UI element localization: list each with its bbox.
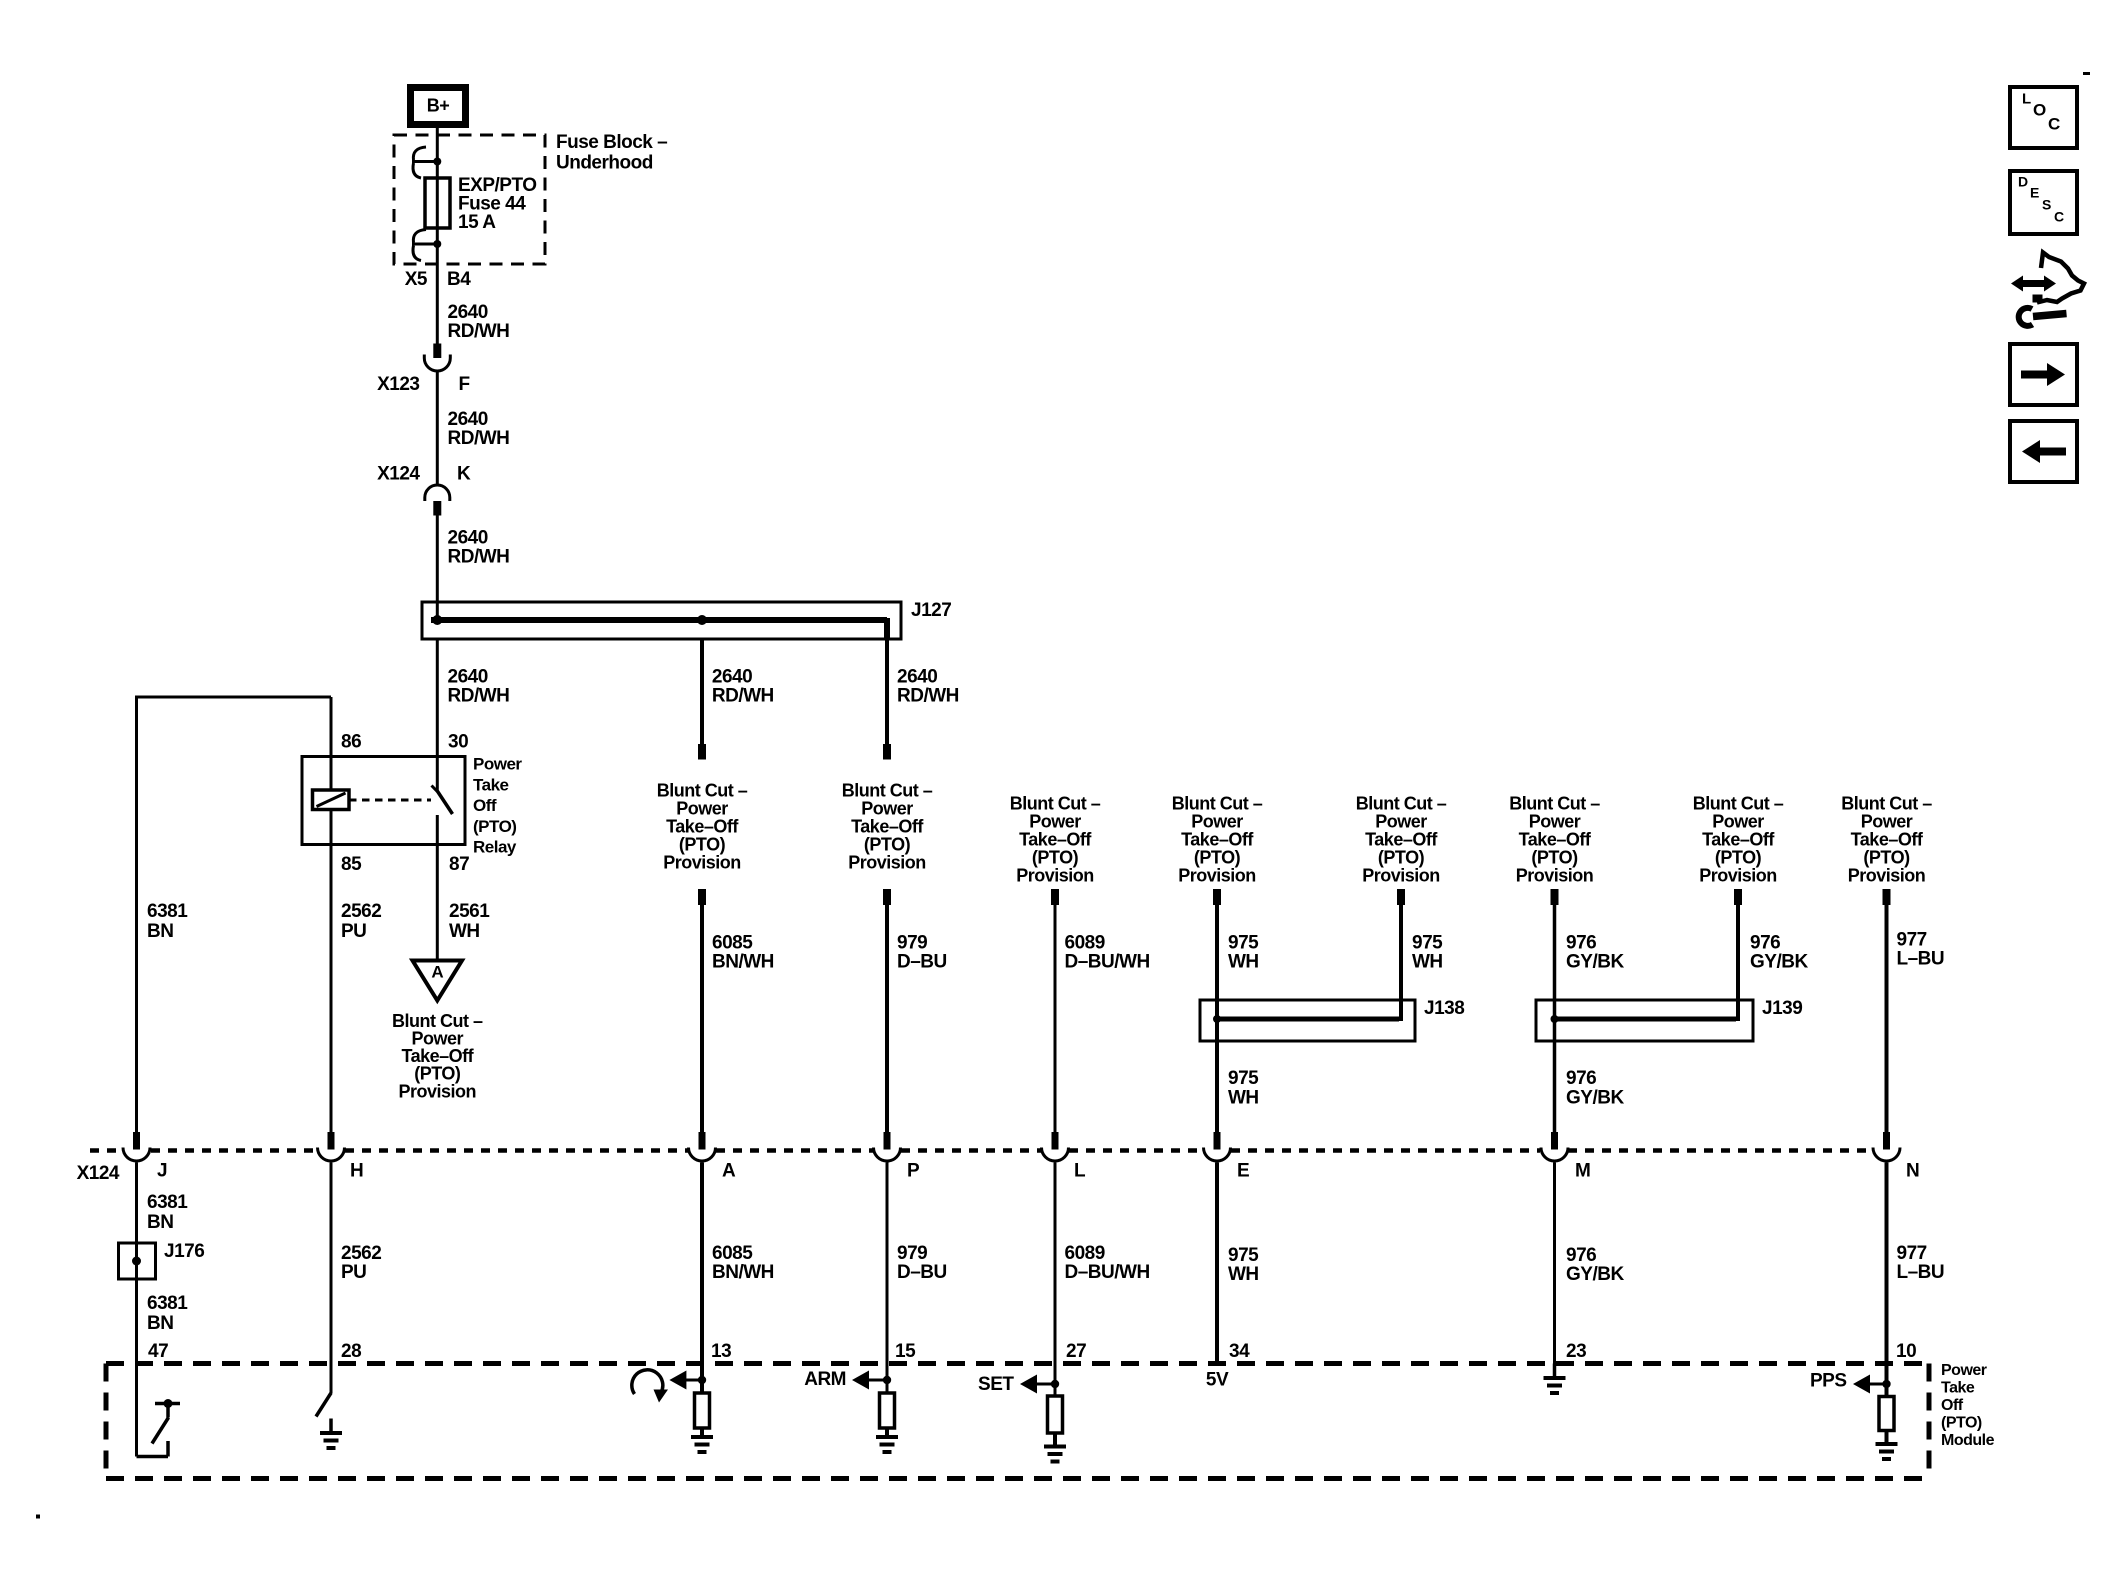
- svg-text:(PTO): (PTO): [679, 834, 726, 854]
- svg-text:6089: 6089: [1065, 933, 1105, 954]
- svg-text:Take: Take: [1941, 1380, 1975, 1397]
- svg-text:Provision: Provision: [1178, 865, 1256, 885]
- wire below connector E: [1215, 1163, 1219, 1364]
- svg-text:Provision: Provision: [399, 1081, 477, 1101]
- svg-text:(PTO): (PTO): [1531, 847, 1578, 867]
- svg-text:23: 23: [1566, 1341, 1586, 1362]
- junction node on J127 (A drop): [697, 615, 707, 625]
- svg-text:28: 28: [341, 1341, 361, 1362]
- svg-text:WH: WH: [1228, 1264, 1259, 1285]
- svg-text:6381: 6381: [147, 1192, 188, 1213]
- svg-text:L: L: [2022, 90, 2031, 107]
- svg-text:Provision: Provision: [1016, 865, 1094, 885]
- svg-text:BN: BN: [147, 1212, 173, 1233]
- rotate icon (pin 13): [632, 1370, 663, 1394]
- svg-text:2640: 2640: [897, 667, 937, 688]
- svg-text:Blunt Cut –: Blunt Cut –: [842, 780, 933, 800]
- svg-text:L–BU: L–BU: [1897, 1262, 1945, 1283]
- wire X123 to X124: [436, 371, 439, 486]
- wire relay pin86 branch: [135, 696, 331, 699]
- svg-text:Provision: Provision: [848, 852, 926, 872]
- svg-text:Power: Power: [1029, 811, 1081, 831]
- svg-text:Provision: Provision: [1362, 865, 1440, 885]
- wire relay 87 to blunt cut A triangle: [436, 844, 439, 959]
- svg-text:977: 977: [1897, 1243, 1927, 1264]
- svg-text:2640: 2640: [448, 302, 488, 323]
- connector X124 pin E: [1214, 1132, 1221, 1150]
- svg-text:B4: B4: [447, 269, 471, 290]
- svg-text:977: 977: [1897, 930, 1927, 951]
- svg-text:WH: WH: [449, 921, 480, 942]
- svg-text:GY/BK: GY/BK: [1566, 1264, 1624, 1285]
- svg-text:6381: 6381: [147, 1293, 188, 1314]
- svg-text:PU: PU: [341, 921, 366, 942]
- svg-text:WH: WH: [1228, 1088, 1259, 1109]
- wire col N blunt to connector: [1883, 889, 1891, 905]
- svg-text:30: 30: [448, 732, 468, 753]
- connector X124 pin N: [1883, 1132, 1890, 1150]
- svg-text:975: 975: [1228, 1245, 1259, 1266]
- svg-text:Relay: Relay: [473, 838, 517, 857]
- wire J127 to relay pin 30: [436, 639, 439, 791]
- svg-text:15 A: 15 A: [458, 212, 496, 233]
- svg-text:6085: 6085: [712, 1243, 753, 1264]
- svg-text:BN: BN: [147, 921, 173, 942]
- svg-text:S: S: [2042, 197, 2051, 213]
- svg-text:X124: X124: [77, 1163, 120, 1184]
- J139 bus: [1555, 1017, 1737, 1022]
- svg-text:Power: Power: [676, 798, 728, 818]
- PTO module dashed box: [106, 1361, 1929, 1366]
- junction node pin 27: [1051, 1380, 1059, 1388]
- svg-text:976: 976: [1566, 933, 1596, 954]
- svg-text:Take–Off: Take–Off: [1702, 829, 1775, 849]
- wire left branch down to connector J: [135, 696, 138, 1133]
- next page button: [2010, 344, 2077, 405]
- svg-text:979: 979: [897, 1243, 927, 1264]
- svg-text:WH: WH: [1412, 952, 1443, 973]
- wire below connector M: [1553, 1163, 1556, 1379]
- inline connector X124 pin K: [425, 485, 450, 501]
- wire below connector L: [1054, 1163, 1057, 1385]
- wire col E blunt through J138 to connector: [1213, 889, 1221, 905]
- wire col M blunt through J139 to connector: [1551, 889, 1559, 905]
- svg-text:L: L: [1074, 1161, 1086, 1182]
- svg-text:34: 34: [1229, 1341, 1250, 1362]
- svg-text:K: K: [457, 464, 471, 485]
- svg-text:P: P: [907, 1161, 920, 1182]
- wire coil to relay box: [330, 757, 333, 791]
- connector X124 pin A: [699, 1132, 706, 1150]
- svg-text:Take: Take: [473, 775, 509, 794]
- svg-text:B+: B+: [427, 95, 450, 115]
- svg-text:GY/BK: GY/BK: [1566, 1088, 1624, 1109]
- wire fuse to X123: [436, 244, 439, 344]
- relay actuator dashed link: [349, 799, 431, 802]
- wire below connector N: [1885, 1163, 1889, 1385]
- svg-text:D–BU: D–BU: [897, 952, 947, 973]
- svg-text:D: D: [2018, 174, 2028, 190]
- fuse block - underhood dashed box: [394, 135, 545, 264]
- svg-text:(PTO): (PTO): [473, 817, 516, 836]
- svg-text:Power: Power: [1941, 1362, 1987, 1379]
- svg-text:(PTO): (PTO): [1032, 847, 1079, 867]
- junction node J138: [1213, 1015, 1221, 1023]
- connector X124 pin J: [133, 1132, 140, 1150]
- module switch to ground (pin 28): [316, 1393, 331, 1417]
- svg-text:975: 975: [1228, 1068, 1259, 1089]
- svg-text:L–BU: L–BU: [1897, 949, 1945, 970]
- svg-text:2640: 2640: [448, 409, 488, 430]
- svg-text:Take–Off: Take–Off: [851, 816, 924, 836]
- svg-text:975: 975: [1228, 933, 1259, 954]
- svg-text:13: 13: [711, 1341, 731, 1362]
- svg-text:BN/WH: BN/WH: [712, 952, 774, 973]
- svg-text:Power: Power: [1529, 811, 1581, 831]
- svg-text:2562: 2562: [341, 901, 381, 922]
- wire below connector A: [700, 1163, 704, 1381]
- connector X124 pin P: [884, 1132, 891, 1150]
- svg-text:Take–Off: Take–Off: [1181, 829, 1254, 849]
- svg-text:2640: 2640: [712, 667, 752, 688]
- svg-text:N: N: [1906, 1161, 1919, 1182]
- svg-text:Fuse Block –: Fuse Block –: [556, 132, 667, 153]
- svg-text:(PTO): (PTO): [1194, 847, 1241, 867]
- svg-text:J: J: [157, 1161, 167, 1182]
- svg-text:A: A: [722, 1161, 736, 1182]
- svg-text:Blunt Cut –: Blunt Cut –: [1841, 793, 1932, 813]
- svg-text:2561: 2561: [449, 901, 490, 922]
- svg-text:15: 15: [895, 1341, 916, 1362]
- resistor (pin 15): [886, 1380, 889, 1393]
- svg-text:Off: Off: [473, 796, 497, 815]
- signal arrow (pin 13): [669, 1371, 686, 1390]
- sidebar tick mark: [2083, 72, 2090, 75]
- ground (pin 13): [700, 1428, 704, 1437]
- svg-text:O: O: [2033, 101, 2046, 120]
- splice bar J139 box: [1536, 1000, 1753, 1041]
- svg-text:Power: Power: [1712, 811, 1764, 831]
- svg-text:Blunt Cut –: Blunt Cut –: [1509, 793, 1600, 813]
- wire X124 to J127: [436, 515, 439, 620]
- svg-text:PU: PU: [341, 1262, 366, 1283]
- svg-text:Blunt Cut –: Blunt Cut –: [1172, 793, 1263, 813]
- svg-text:A: A: [431, 963, 443, 982]
- svg-text:2640: 2640: [448, 528, 488, 549]
- svg-text:J127: J127: [911, 600, 951, 621]
- J138 bus: [1217, 1017, 1399, 1022]
- svg-text:6089: 6089: [1065, 1243, 1105, 1264]
- svg-text:E: E: [1237, 1161, 1249, 1182]
- svg-text:6085: 6085: [712, 933, 753, 954]
- svg-text:D–BU: D–BU: [897, 1262, 947, 1283]
- svg-text:RD/WH: RD/WH: [712, 686, 774, 707]
- svg-text:Underhood: Underhood: [556, 153, 653, 174]
- svg-text:(PTO): (PTO): [1715, 847, 1762, 867]
- svg-text:Take–Off: Take–Off: [1851, 829, 1924, 849]
- svg-text:Blunt Cut –: Blunt Cut –: [1693, 793, 1784, 813]
- svg-text:WH: WH: [1228, 952, 1259, 973]
- svg-text:RD/WH: RD/WH: [448, 428, 510, 449]
- svg-text:RD/WH: RD/WH: [448, 321, 510, 342]
- svg-text:86: 86: [341, 732, 361, 753]
- svg-text:D–BU/WH: D–BU/WH: [1065, 1262, 1150, 1283]
- svg-text:H: H: [350, 1161, 363, 1182]
- svg-text:Power: Power: [1861, 811, 1913, 831]
- svg-text:(PTO): (PTO): [1378, 847, 1425, 867]
- svg-text:GY/BK: GY/BK: [1750, 952, 1808, 973]
- svg-text:2640: 2640: [448, 667, 488, 688]
- svg-text:Take–Off: Take–Off: [1019, 829, 1092, 849]
- connector X124 pin H: [328, 1132, 335, 1150]
- off-page triangle A (blunt cut): [413, 961, 463, 1001]
- svg-text:47: 47: [148, 1341, 168, 1362]
- stray dot: [36, 1515, 40, 1519]
- svg-text:E: E: [2030, 185, 2039, 201]
- svg-text:975: 975: [1412, 933, 1443, 954]
- junction node on J127 (main): [432, 615, 442, 625]
- svg-text:10: 10: [1896, 1341, 1916, 1362]
- svg-text:Module: Module: [1941, 1432, 1995, 1449]
- splice pack J127 box: [422, 602, 901, 639]
- clip terminal top of fuse 44: [412, 160, 437, 163]
- J127 bus bar: [431, 617, 887, 623]
- splice bar J138 box: [1200, 1000, 1415, 1041]
- svg-text:976: 976: [1566, 1068, 1596, 1089]
- signal arrow SET (pin 27): [1020, 1375, 1037, 1394]
- svg-text:Power: Power: [1191, 811, 1243, 831]
- ground (pin 10): [1885, 1431, 1889, 1444]
- svg-text:(PTO): (PTO): [1941, 1415, 1982, 1432]
- svg-text:Power: Power: [1375, 811, 1427, 831]
- previous page button: [2010, 421, 2077, 482]
- ground (pin 27): [1053, 1434, 1057, 1447]
- svg-text:X124: X124: [377, 464, 420, 485]
- wire col3 blunt to J138: [1397, 889, 1405, 905]
- svg-text:27: 27: [1066, 1341, 1086, 1362]
- wire col5 blunt to J139: [1734, 889, 1742, 905]
- svg-text:RD/WH: RD/WH: [897, 686, 959, 707]
- relay box PTO: [302, 757, 465, 845]
- DESC button: [2010, 171, 2077, 234]
- signal arrow PPS (pin 10): [1853, 1375, 1870, 1394]
- junction node pin 10: [1882, 1380, 1890, 1388]
- wire below connector P: [886, 1163, 889, 1381]
- svg-text:5V: 5V: [1206, 1370, 1229, 1391]
- wire into relay pin 86: [330, 697, 333, 757]
- resistor (pin 13): [700, 1380, 704, 1393]
- svg-text:C: C: [2048, 115, 2060, 134]
- wire below connector H: [330, 1163, 333, 1394]
- clip terminal bottom of fuse 44: [412, 243, 437, 246]
- svg-text:RD/WH: RD/WH: [448, 686, 510, 707]
- svg-text:D–BU/WH: D–BU/WH: [1065, 952, 1150, 973]
- svg-text:BN/WH: BN/WH: [712, 1262, 774, 1283]
- connector X124 pin M: [1551, 1132, 1558, 1150]
- module switch (pin 47 resolver): [137, 1455, 169, 1459]
- LOC button: [2010, 87, 2077, 148]
- relay contact switch: [432, 786, 438, 792]
- svg-text:Blunt Cut –: Blunt Cut –: [657, 780, 748, 800]
- junction node J139: [1551, 1015, 1559, 1023]
- svg-text:F: F: [459, 374, 470, 395]
- svg-text:Take–Off: Take–Off: [1519, 829, 1592, 849]
- ground (pin 23): [1553, 1364, 1557, 1379]
- svg-text:M: M: [1575, 1161, 1590, 1182]
- svg-text:ARM: ARM: [804, 1369, 846, 1390]
- svg-text:Provision: Provision: [1516, 865, 1594, 885]
- svg-text:X123: X123: [377, 374, 419, 395]
- svg-text:X5: X5: [405, 269, 428, 290]
- svg-text:J138: J138: [1424, 998, 1464, 1019]
- svg-text:Take–Off: Take–Off: [666, 816, 739, 836]
- svg-text:Power: Power: [473, 755, 522, 774]
- inline connector X123 pin F: [433, 344, 441, 359]
- svg-text:J139: J139: [1762, 998, 1802, 1019]
- relay coil: [313, 790, 350, 810]
- wire col A blunt to connector: [698, 889, 706, 905]
- svg-text:PPS: PPS: [1810, 1371, 1847, 1392]
- svg-text:SET: SET: [978, 1374, 1014, 1395]
- wire col L blunt to connector: [1051, 889, 1059, 905]
- svg-text:J176: J176: [164, 1241, 204, 1262]
- svg-text:976: 976: [1566, 1245, 1596, 1266]
- svg-text:BN: BN: [147, 1313, 173, 1334]
- svg-text:Provision: Provision: [663, 852, 741, 872]
- resistor (pin 10): [1885, 1384, 1889, 1397]
- wire B+ to fuse block: [436, 128, 439, 161]
- svg-text:2562: 2562: [341, 1243, 381, 1264]
- fuse EXP/PTO Fuse 44 15 A: [425, 178, 450, 228]
- svg-text:C: C: [2054, 209, 2064, 225]
- svg-text:(PTO): (PTO): [864, 834, 911, 854]
- svg-text:Take–Off: Take–Off: [1365, 829, 1438, 849]
- svg-text:Blunt Cut –: Blunt Cut –: [1010, 793, 1101, 813]
- svg-text:Power: Power: [861, 798, 913, 818]
- svg-text:Off: Off: [1941, 1397, 1964, 1414]
- svg-text:Provision: Provision: [1848, 865, 1926, 885]
- junction node pin 13: [698, 1376, 706, 1384]
- svg-text:976: 976: [1750, 933, 1780, 954]
- wire relay 85 to connector H: [330, 844, 333, 1132]
- svg-text:87: 87: [449, 854, 469, 875]
- svg-text:6381: 6381: [147, 901, 188, 922]
- svg-text:85: 85: [341, 854, 362, 875]
- svg-text:RD/WH: RD/WH: [448, 547, 510, 568]
- connector X124 pin L: [1052, 1132, 1059, 1150]
- splice J176: [119, 1243, 156, 1279]
- junction node pin 15: [883, 1376, 891, 1384]
- power feed node B+: [411, 88, 466, 125]
- vehicle/wrench icon: [2037, 253, 2084, 303]
- svg-text:Provision: Provision: [1699, 865, 1777, 885]
- svg-text:Blunt Cut –: Blunt Cut –: [1356, 793, 1447, 813]
- svg-text:(PTO): (PTO): [1863, 847, 1910, 867]
- wire below connector J: [135, 1163, 138, 1457]
- connector row X124 dashed line: [90, 1148, 123, 1153]
- wire J127 drop to blunt cut P: [885, 639, 889, 746]
- svg-text:GY/BK: GY/BK: [1566, 952, 1624, 973]
- svg-text:979: 979: [897, 933, 927, 954]
- wire J127 drop to blunt cut A: [700, 639, 704, 746]
- wire col P blunt to connector: [883, 889, 891, 905]
- ground (pin 15): [885, 1428, 889, 1437]
- wire through fuse: [436, 162, 439, 245]
- resistor (pin 27): [1054, 1384, 1057, 1396]
- signal arrow ARM (pin 15): [852, 1371, 869, 1390]
